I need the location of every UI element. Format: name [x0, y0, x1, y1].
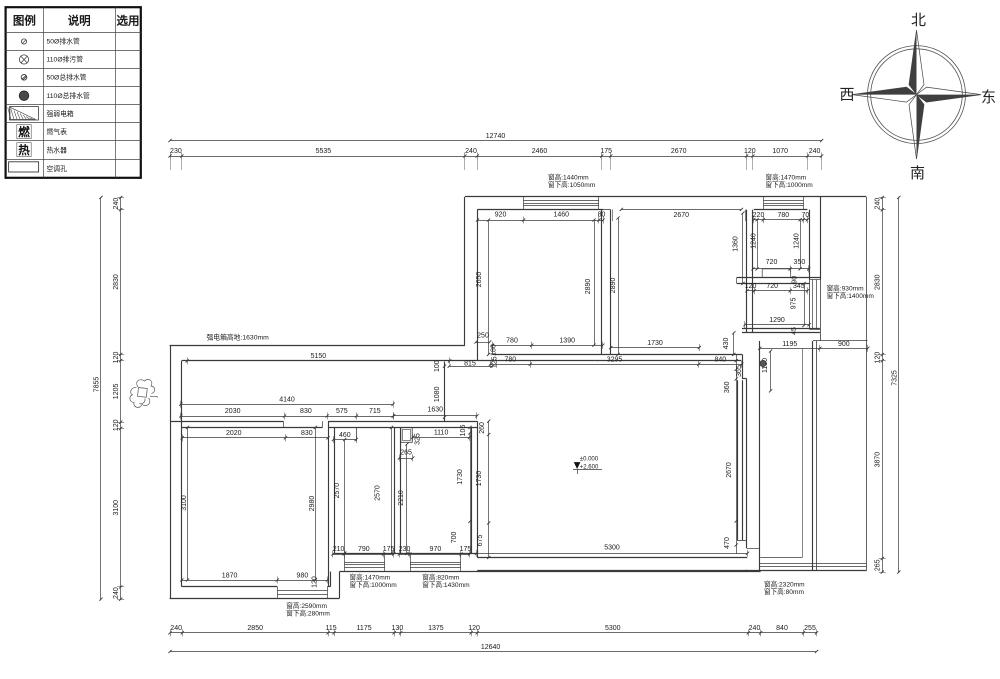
svg-text:空调孔: 空调孔: [47, 164, 68, 173]
middle rooms bottom inner line: [334, 553, 477, 555]
legend icon 110总排水管 filled circle: [19, 91, 29, 101]
svg-text:1070: 1070: [772, 148, 788, 155]
svg-text:1730: 1730: [647, 340, 663, 347]
svg-text:热: 热: [18, 143, 30, 157]
svg-text:窗高:820mm: 窗高:820mm: [422, 573, 460, 582]
bathroom top dims: [752, 212, 809, 223]
bathroom dims 720 350: [751, 259, 810, 273]
wall bedroom1/bedroom2: [601, 210, 603, 355]
legend table: [6, 7, 141, 178]
bottom dim chain: [168, 625, 818, 636]
svg-text:975: 975: [791, 297, 798, 309]
dim 1630: [392, 407, 479, 420]
svg-text:265: 265: [400, 449, 412, 456]
svg-text:125: 125: [492, 356, 499, 368]
room A bottom window 1470: [345, 562, 386, 564]
room A dim 2570 left: [344, 440, 346, 553]
svg-text:窗高:2590mm: 窗高:2590mm: [286, 601, 327, 610]
left wall inner: [181, 361, 183, 587]
svg-text:3100: 3100: [113, 500, 120, 516]
svg-text:5300: 5300: [605, 625, 621, 632]
top wall inner line: [477, 209, 603, 211]
dim 4140: [179, 396, 395, 407]
step wall bottom left to middle: [339, 572, 341, 599]
svg-text:240: 240: [809, 148, 821, 155]
svg-text:4140: 4140: [279, 396, 295, 403]
bathroom right wall: [809, 210, 811, 280]
bathroom bottom wall: [737, 277, 821, 279]
shower tray rect: [762, 269, 791, 278]
svg-text:热水器: 热水器: [47, 146, 68, 155]
dim 5150: [186, 353, 452, 365]
dim 1080 rotated: [443, 365, 446, 368]
svg-text:840: 840: [714, 357, 726, 364]
svg-text:2670: 2670: [674, 212, 690, 219]
svg-text:2890: 2890: [610, 278, 617, 294]
svg-text:45: 45: [791, 327, 798, 335]
legend icon 110排污管 circle with X: [19, 55, 28, 64]
svg-text:350: 350: [794, 259, 806, 266]
right overall dim 7325: [898, 197, 900, 572]
svg-text:窗下高:80mm: 窗下高:80mm: [764, 587, 804, 596]
svg-text:2890: 2890: [585, 279, 592, 295]
svg-text:燃: 燃: [17, 125, 30, 139]
svg-text:830: 830: [300, 408, 312, 415]
legend icon 热水器: [17, 143, 31, 157]
living dining bottom inner wall: [477, 557, 747, 559]
svg-text:240: 240: [749, 625, 761, 632]
corridor dim row 815: [449, 366, 492, 368]
svg-text:980: 980: [297, 572, 309, 579]
svg-text:1375: 1375: [428, 625, 444, 632]
bottom outer line right section: [745, 570, 867, 572]
svg-text:230: 230: [170, 148, 182, 155]
svg-text:175: 175: [600, 148, 612, 155]
entry partition wall: [444, 362, 446, 422]
svg-text:2830: 2830: [875, 274, 882, 290]
svg-text:780: 780: [777, 212, 789, 219]
svg-text:1730: 1730: [457, 469, 464, 485]
dim 975: [804, 284, 806, 326]
corridor bottom wall inner: [182, 427, 323, 429]
svg-text:1195: 1195: [782, 341, 797, 348]
svg-text:120: 120: [744, 148, 756, 155]
svg-text:900: 900: [838, 341, 850, 348]
svg-text:1390: 1390: [559, 337, 575, 344]
svg-text:1360: 1360: [733, 236, 740, 252]
svg-text:80: 80: [598, 212, 606, 219]
bathroom dim 1240 left: [757, 220, 759, 269]
svg-text:3100: 3100: [181, 495, 188, 511]
svg-text:2570: 2570: [374, 485, 381, 501]
corridor top wall outer line: [492, 354, 742, 356]
svg-text:1080: 1080: [434, 386, 441, 402]
svg-text:1240: 1240: [794, 233, 801, 249]
room A stub wall: [356, 427, 358, 441]
bottom left window 2590: [277, 590, 327, 592]
living dining bottom outer wall (overlap): [477, 570, 747, 572]
svg-text:强电箱高地:1630mm: 强电箱高地:1630mm: [207, 332, 270, 341]
svg-text:240: 240: [113, 587, 120, 599]
bedroom1 bottom dims: [491, 337, 605, 348]
room B bottom window 820: [410, 562, 461, 564]
svg-text:5300: 5300: [604, 545, 620, 552]
svg-text:2850: 2850: [247, 625, 263, 632]
svg-text:105: 105: [460, 425, 467, 437]
right strip top edge: [813, 340, 868, 342]
svg-text:窗下高:1000mm: 窗下高:1000mm: [766, 180, 814, 189]
balcony bottom window 2320: [760, 563, 867, 565]
right dim chain: [875, 196, 886, 574]
svg-text:830: 830: [301, 430, 313, 437]
svg-text:700: 700: [451, 531, 458, 543]
svg-text:7855: 7855: [94, 377, 101, 393]
corridor bottom wall outer (rooms top wall): [170, 421, 283, 423]
svg-text:720: 720: [766, 259, 778, 266]
dim 1130 rotated w/ pipe: [770, 351, 772, 391]
svg-text:说明: 说明: [68, 14, 91, 28]
svg-text:±0.000: ±0.000: [580, 457, 599, 463]
dim 1870 980: [180, 572, 329, 583]
svg-text:选用: 选用: [117, 14, 140, 28]
outer top wall: [465, 196, 866, 198]
svg-text:燃气表: 燃气表: [47, 127, 68, 136]
svg-text:675: 675: [477, 535, 484, 547]
svg-text:790: 790: [358, 546, 370, 553]
svg-text:1290: 1290: [769, 317, 785, 324]
svg-text:强弱电箱: 强弱电箱: [47, 109, 74, 118]
svg-text:2460: 2460: [532, 148, 548, 155]
dims 2030 830 575 715: [179, 408, 395, 419]
svg-text:2830: 2830: [113, 274, 120, 290]
bathroom dim 1240 right: [800, 220, 802, 269]
wall bedroom2/bathroom: [746, 210, 748, 333]
svg-text:720: 720: [766, 283, 778, 290]
shower zone bottom wall: [742, 328, 820, 330]
svg-text:265: 265: [875, 559, 882, 571]
svg-text:250: 250: [477, 332, 489, 339]
svg-text:窗下高:280mm: 窗下高:280mm: [286, 609, 330, 618]
left wall outer: [170, 346, 172, 599]
corridor top wall inner line right part: [595, 360, 742, 362]
svg-text:3870: 3870: [875, 452, 882, 468]
svg-text:窗高:1470mm: 窗高:1470mm: [350, 573, 391, 582]
svg-text:5535: 5535: [316, 148, 332, 155]
svg-text:东: 东: [981, 89, 996, 106]
svg-text:240: 240: [465, 148, 477, 155]
svg-text:360: 360: [724, 381, 731, 393]
bathroom dims 120 720 345: [745, 283, 809, 294]
svg-text:12640: 12640: [481, 644, 501, 651]
svg-text:2210: 2210: [398, 490, 405, 506]
wall room A / room B: [394, 427, 396, 553]
svg-text:175: 175: [383, 546, 395, 553]
svg-text:240: 240: [170, 625, 182, 632]
svg-text:窗高:1440mm: 窗高:1440mm: [548, 173, 589, 182]
living-dining chain 260/1730/675: [488, 421, 490, 557]
svg-text:115: 115: [326, 625, 337, 632]
bedroom1 dim 2890: [594, 220, 596, 345]
middle section bottom outer wall: [339, 571, 760, 573]
svg-text:2020: 2020: [226, 430, 242, 437]
svg-text:窗高:930mm: 窗高:930mm: [827, 284, 865, 293]
svg-text:1630: 1630: [428, 407, 444, 414]
svg-text:130: 130: [392, 625, 404, 632]
lower-left section top wall inner: [182, 360, 445, 362]
bedroom1/2 wall top cap: [602, 209, 611, 211]
svg-text:1175: 1175: [357, 625, 372, 632]
svg-text:2670: 2670: [726, 462, 733, 478]
svg-text:920: 920: [495, 212, 507, 219]
svg-text:南: 南: [910, 165, 925, 182]
bedroom1 dim 250: [476, 342, 490, 344]
balcony right wall verticals: [802, 348, 804, 557]
dim 1290: [743, 317, 810, 328]
room B chain 105/1730/700: [470, 427, 472, 553]
svg-text:窗下高:1400mm: 窗下高:1400mm: [827, 291, 875, 300]
svg-text:715: 715: [369, 408, 381, 415]
svg-text:240: 240: [875, 198, 882, 210]
svg-text:5150: 5150: [311, 353, 327, 360]
svg-text:240: 240: [113, 198, 120, 210]
svg-text:图例: 图例: [13, 14, 36, 28]
svg-text:180: 180: [491, 344, 498, 356]
dim 265: [398, 449, 415, 461]
svg-text:120: 120: [745, 283, 757, 290]
svg-text:窗高:2320mm: 窗高:2320mm: [764, 580, 805, 589]
svg-text:1870: 1870: [222, 572, 238, 579]
svg-text:815: 815: [464, 360, 476, 367]
svg-text:7325: 7325: [892, 370, 899, 386]
right side window 930 vertical: [812, 280, 814, 330]
legend icon 50排水管 small circle: [21, 39, 26, 44]
svg-text:北: 北: [911, 12, 926, 29]
svg-text:窗下高:1050mm: 窗下高:1050mm: [548, 180, 596, 189]
top overall dim 12740: [170, 140, 822, 142]
room A dim 2570 right: [391, 427, 393, 553]
svg-text:970: 970: [430, 546, 442, 553]
svg-text:780: 780: [504, 357, 516, 364]
dim 430: [733, 333, 735, 355]
bedroom1 dim 2650: [488, 220, 490, 354]
electric box symbol: [401, 428, 412, 443]
svg-text:3295: 3295: [607, 357, 623, 364]
svg-text:210: 210: [333, 546, 345, 553]
svg-text:2650: 2650: [476, 272, 483, 288]
balcony inner bottom line: [760, 557, 802, 559]
pipe symbol 50 drain: [760, 360, 766, 366]
left dim chain: [113, 196, 124, 601]
wall living room / room A: [328, 421, 330, 587]
svg-text:1460: 1460: [554, 212, 570, 219]
bathroom top window 1470: [763, 200, 803, 202]
svg-text:窗高:1470mm: 窗高:1470mm: [766, 173, 807, 182]
svg-text:260: 260: [479, 422, 486, 434]
corridor east jog: [742, 354, 744, 379]
svg-text:120: 120: [875, 352, 882, 364]
balcony left wall: [759, 341, 761, 571]
room B dim 2210: [406, 444, 408, 553]
svg-text:575: 575: [336, 408, 348, 415]
bedroom1 top window 1440: [523, 200, 599, 202]
upper-left outer wall vertical: [464, 197, 466, 346]
upper-left inner wall vertical: [477, 210, 479, 361]
dim 460: [332, 432, 358, 443]
bedroom2 bottom dim: [609, 340, 701, 351]
svg-text:50Ø排水管: 50Ø排水管: [47, 36, 80, 45]
svg-text:325: 325: [414, 433, 421, 445]
bedroom2 top dim 2670: [621, 209, 741, 211]
bottom-left inner wall line: [182, 586, 277, 588]
svg-text:2570: 2570: [334, 483, 341, 499]
bottom-left outer wall: [170, 598, 340, 600]
svg-text:120: 120: [113, 352, 120, 364]
svg-text:120: 120: [468, 625, 480, 632]
svg-text:120: 120: [311, 576, 318, 588]
living room dim 3100: [187, 427, 189, 580]
svg-text:470: 470: [724, 537, 731, 549]
svg-text:120: 120: [113, 419, 120, 431]
svg-text:110Ø排污管: 110Ø排污管: [47, 54, 84, 63]
elevation marker: [574, 462, 581, 469]
left overall dim 7855: [100, 197, 102, 599]
dims 210 790 175: [331, 546, 395, 557]
plant sketch symbol: [130, 379, 158, 407]
dims 1195 900: [758, 341, 869, 352]
svg-text:840: 840: [776, 625, 788, 632]
svg-text:430: 430: [723, 338, 730, 350]
svg-text:1730: 1730: [476, 471, 483, 487]
svg-text:1110: 1110: [434, 430, 449, 437]
svg-text:460: 460: [339, 432, 351, 439]
corridor dims: [489, 357, 744, 368]
svg-text:90: 90: [792, 276, 799, 284]
svg-text:2030: 2030: [225, 408, 241, 415]
top dim chain: [168, 148, 823, 159]
living room dim 2980: [315, 427, 317, 580]
dims 230 970 175: [398, 546, 472, 557]
legend icon 50总排水管: [21, 75, 27, 81]
svg-text:2980: 2980: [309, 496, 316, 512]
svg-text:110Ø总排水管: 110Ø总排水管: [47, 91, 91, 100]
dim 5300: [475, 545, 749, 557]
svg-text:175: 175: [460, 546, 472, 553]
svg-text:780: 780: [506, 337, 518, 344]
compass rose: [852, 30, 981, 159]
svg-text:12740: 12740: [486, 133, 506, 140]
bedroom1 top dims: [476, 212, 605, 224]
svg-text:70: 70: [802, 212, 810, 219]
svg-text:+2.600: +2.600: [580, 465, 599, 471]
svg-text:1205: 1205: [113, 384, 120, 400]
svg-text:50Ø总排水管: 50Ø总排水管: [47, 73, 87, 82]
svg-text:西: 西: [839, 87, 854, 104]
right chain of living-dining 430/365/360/2670/470: [736, 354, 738, 554]
bedroom2 dim 2890: [618, 218, 620, 354]
svg-text:1240: 1240: [751, 233, 758, 249]
living-dining right wall: [737, 380, 739, 540]
svg-text:窗下高:1430mm: 窗下高:1430mm: [422, 580, 470, 589]
dims 2020 830: [181, 430, 330, 441]
svg-text:100: 100: [434, 360, 441, 372]
dim 1110: [411, 430, 471, 441]
svg-text:255: 255: [804, 625, 816, 632]
svg-text:2670: 2670: [671, 148, 687, 155]
bottom overall dim 12640: [170, 651, 817, 653]
legend icon 燃气表: [17, 125, 31, 139]
wall room B / living-dining: [471, 427, 473, 553]
bedroom2 dim 1360: [742, 213, 744, 283]
right parapet wall: [866, 197, 868, 571]
legend icon 空调孔 rectangle: [9, 162, 39, 172]
svg-text:窗下高:1000mm: 窗下高:1000mm: [350, 580, 398, 589]
legend icon 强弱电箱 hatched triangle box: [10, 107, 39, 120]
lower-left section top wall outer: [170, 345, 465, 347]
